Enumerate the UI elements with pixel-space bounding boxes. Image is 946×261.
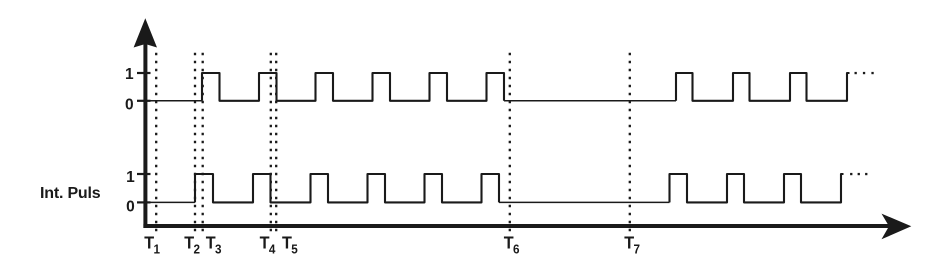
tick: bottom waveform level 0: [137, 201, 151, 203]
bottom waveform continuation dots: [850, 173, 867, 175]
top waveform continuation dots: [855, 72, 874, 74]
bottom waveform pulse train 2: [670, 174, 844, 202]
svg-text:1: 1: [126, 169, 135, 186]
x-axis (time axis): [143, 224, 890, 228]
tick: top waveform level 0: [137, 100, 151, 102]
dotted time line T3: [202, 53, 204, 232]
dotted time line T7: [629, 53, 631, 232]
y-axis arrowhead: [134, 18, 157, 47]
top waveform initial baseline: [137, 100, 202, 102]
dotted time line T6: [509, 53, 511, 232]
dotted time line T1: [155, 53, 157, 232]
y-axis shaft: [143, 38, 147, 228]
svg-text:0: 0: [126, 199, 135, 216]
top waveform pulse train 2: [676, 73, 850, 101]
bottom waveform initial baseline: [137, 201, 195, 203]
label T5: [282, 233, 298, 257]
label T3: [206, 233, 222, 257]
svg-text:Int. Puls: Int. Puls: [40, 185, 101, 202]
dotted time line T4: [270, 53, 272, 232]
label T2: [184, 233, 200, 257]
tick: bottom waveform level 1: [137, 173, 151, 175]
dotted time line T2: [194, 53, 196, 232]
top waveform pulse train 1: [202, 73, 504, 101]
bottom waveform pulse train 1: [195, 174, 499, 202]
label T1: [144, 233, 160, 257]
svg-text:1: 1: [125, 66, 134, 83]
dotted time line T5: [275, 53, 277, 232]
svg-text:0: 0: [125, 96, 134, 113]
bottom waveform idle gap line: [499, 201, 670, 203]
x-axis arrowhead: [882, 214, 912, 240]
tick: top waveform level 1: [137, 72, 151, 74]
label T6: [504, 233, 520, 257]
top waveform idle gap line: [504, 100, 676, 102]
label T4: [260, 233, 276, 257]
label T7: [624, 233, 640, 257]
